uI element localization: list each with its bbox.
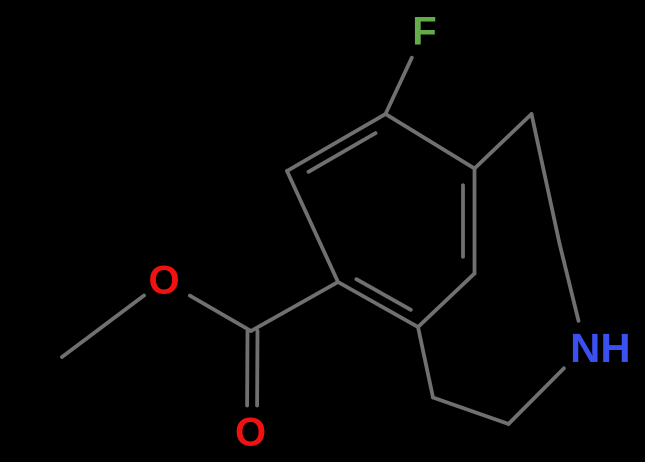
- svg-text:O: O: [235, 410, 266, 454]
- bond T-F: [386, 58, 412, 114]
- bond O1-CH3: [62, 296, 144, 358]
- bond C2-N: [560, 244, 579, 321]
- svg-text:O: O: [148, 259, 179, 303]
- aromatic inner line T-TL: [309, 133, 376, 172]
- bond N-C4: [509, 368, 564, 424]
- C=O double line 2: [245, 331, 249, 406]
- benzene edge T-TL: [287, 114, 386, 171]
- bond C4-C5: [433, 398, 509, 425]
- aromatic inner line BR-TR: [461, 185, 465, 256]
- aromatic inner line E-B: [356, 279, 410, 310]
- benzene edge TR-T: [386, 114, 475, 169]
- C=O double line 1: [255, 331, 259, 406]
- bond E-Cc: [251, 282, 338, 331]
- svg-text:NH: NH: [570, 325, 631, 371]
- benzene edge BR-TR: [473, 169, 477, 274]
- benzene edge TL-E: [287, 171, 338, 282]
- bond C5-B: [418, 327, 433, 398]
- bond Cc-O1: [190, 296, 251, 331]
- bond C1-C2: [532, 114, 560, 244]
- benzene edge E-B: [338, 282, 418, 327]
- benzene edge B-BR: [418, 274, 475, 328]
- bond TR-C1: [475, 114, 532, 169]
- svg-text:F: F: [412, 10, 436, 54]
